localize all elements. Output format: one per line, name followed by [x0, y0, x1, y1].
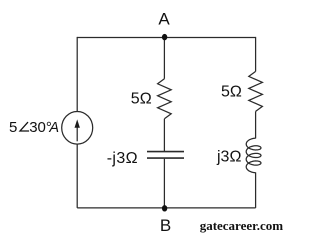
- wire left vertical upper: [76, 37, 78, 112]
- wire node A to resistor R1: [163, 38, 165, 79]
- wire resistor R1 to capacitor C1: [163, 119, 165, 151]
- capacitor C1 top plate: [147, 151, 184, 153]
- svg-text:B: B: [160, 216, 171, 235]
- resistor R2 5ohm right zigzag: [249, 71, 263, 111]
- svg-text:A: A: [48, 120, 59, 136]
- svg-text:gatecareer.com: gatecareer.com: [200, 218, 284, 233]
- svg-text:j3Ω: j3Ω: [216, 148, 241, 165]
- current source I1 circle: [62, 111, 93, 144]
- node B junction dot: [162, 205, 167, 211]
- source value label 5 angle 30 deg A: [9, 119, 59, 136]
- wire top right horizontal: [164, 37, 255, 39]
- svg-text:5: 5: [9, 119, 17, 136]
- node A junction dot: [162, 34, 167, 40]
- svg-text:A: A: [158, 10, 170, 29]
- svg-text:-j3Ω: -j3Ω: [107, 150, 138, 167]
- capacitor C1 bottom plate: [147, 157, 184, 159]
- wire resistor R2 to inductor L1: [255, 111, 257, 138]
- wire left vertical lower: [76, 144, 78, 208]
- inductor L1 j3ohm coil: [246, 138, 261, 173]
- wire bottom left horizontal: [77, 207, 164, 209]
- wire top left horizontal: [77, 37, 164, 39]
- wire inductor L1 to bottom right corner: [255, 172, 257, 208]
- wire top right corner to resistor R2: [255, 37, 257, 72]
- wire capacitor C1 to node B: [163, 159, 165, 208]
- current source I1 arrow: [75, 119, 80, 141]
- resistor R1 5ohm middle zigzag: [158, 79, 172, 119]
- svg-text:5Ω: 5Ω: [131, 91, 152, 108]
- svg-text:5Ω: 5Ω: [221, 84, 242, 101]
- wire bottom right horizontal: [164, 207, 255, 209]
